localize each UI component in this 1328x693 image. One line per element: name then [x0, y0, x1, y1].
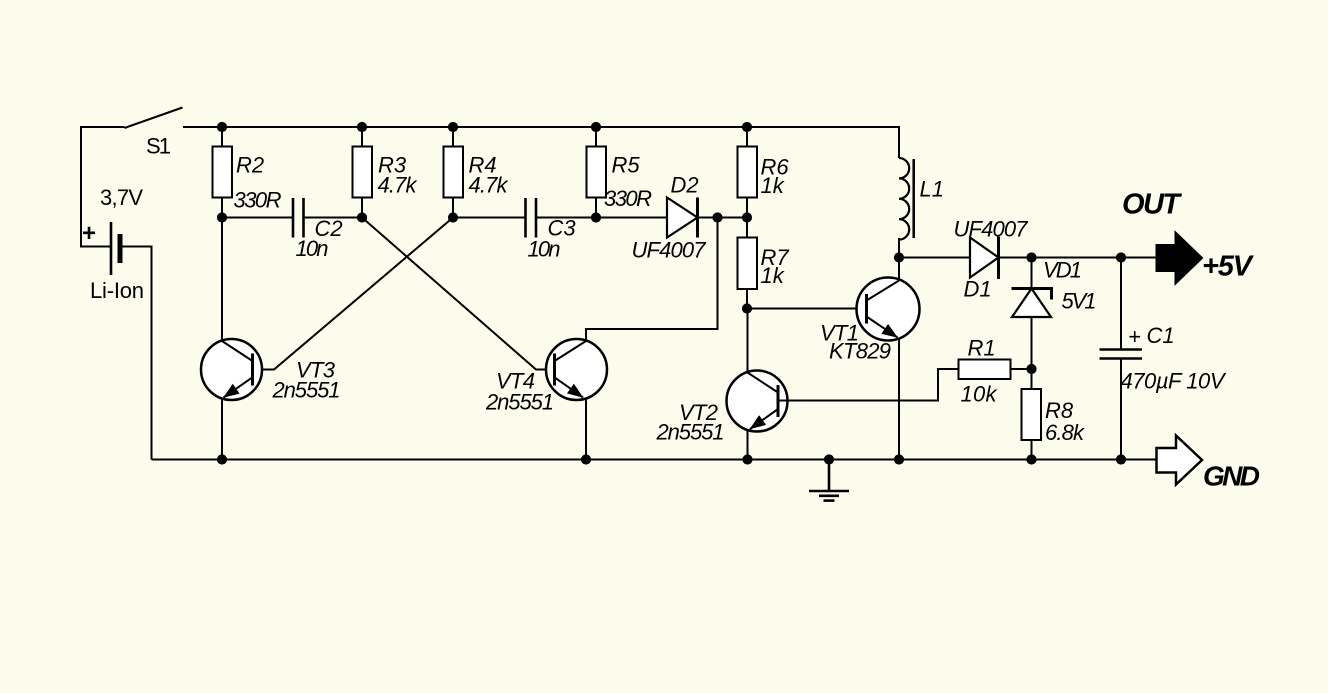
svg-text:2n5551: 2n5551	[272, 378, 341, 403]
node top rail R4	[448, 122, 458, 132]
svg-text:2n5551: 2n5551	[656, 420, 725, 445]
wire L1 node to D1 anode	[899, 257, 970, 259]
VT1 collector diagonal	[867, 281, 900, 301]
capacitor C1 plates	[1100, 350, 1143, 359]
diode D2 cathode bar	[696, 198, 699, 238]
VT2 collector wire from R7 node	[747, 309, 749, 373]
svg-text:4.7k: 4.7k	[378, 173, 418, 198]
cross-coupling wire R4 node to VT3 base	[253, 218, 454, 370]
svg-text:+: +	[1128, 324, 1141, 349]
diode D1 cathode bar	[997, 237, 1000, 280]
node top rail R3	[357, 122, 367, 132]
VT1 emitter wire to bottom rail	[898, 339, 900, 460]
resistor R4 4.7k	[444, 127, 464, 218]
node D1/VD1	[1026, 252, 1036, 262]
wire R7 bottom node to VT1 base	[747, 308, 867, 310]
node rail VT2	[742, 454, 752, 464]
ground symbol	[809, 460, 849, 501]
VT1 collector wire to L1/D1 node	[898, 258, 900, 281]
svg-text:Li-Ion: Li-Ion	[90, 278, 144, 303]
VT4 emitter diagonal with arrow	[555, 377, 584, 397]
svg-text:C1: C1	[1147, 323, 1175, 348]
svg-text:D2: D2	[671, 173, 699, 198]
VT2 emitter diagonal with arrow	[750, 409, 778, 429]
transistor VT3 2n5551 circle	[201, 339, 262, 400]
capacitor C2 10n plates	[293, 198, 304, 238]
VT2 base wire to R1	[778, 369, 959, 401]
node R3/C2	[357, 212, 367, 222]
wire D2 node down and left to VT4 collector	[586, 218, 718, 341]
node rail VT3	[217, 454, 227, 464]
VT1 emitter diagonal with arrow	[867, 317, 898, 338]
node L1/D1	[894, 252, 904, 262]
svg-text:470µF 10V: 470µF 10V	[1121, 369, 1227, 394]
wire R5 node to D2 anode	[596, 217, 667, 219]
svg-text:3,7V: 3,7V	[100, 185, 143, 210]
cross-coupling wire R3 node to VT4 base	[362, 218, 555, 370]
svg-text:10n: 10n	[296, 236, 329, 261]
wire battery negative down to bottom rail	[120, 247, 152, 460]
svg-text:UF4007: UF4007	[954, 216, 1029, 241]
diode D1 UF4007 triangle	[970, 238, 999, 278]
VT3 emitter diagonal with arrow	[224, 377, 253, 397]
VT4 base bar	[553, 354, 556, 386]
VT2 emitter wire to bottom rail	[747, 430, 749, 460]
wire battery positive to switch (left vertical + top)	[81, 127, 125, 247]
wire L1 bottom to node	[898, 238, 900, 258]
zener VD1 triangle	[1012, 289, 1051, 318]
battery 3,7V Li-Ion: long positive plate	[110, 222, 113, 275]
svg-text:S1: S1	[146, 134, 171, 159]
svg-text:GND: GND	[1203, 461, 1260, 492]
output arrow +5V (filled)	[1157, 233, 1203, 284]
svg-text:6.8k: 6.8k	[1045, 420, 1085, 445]
VT2 base bar	[777, 385, 780, 417]
node D2/VT4	[712, 212, 722, 222]
inductor L1 core bar	[912, 159, 915, 238]
wire C3 to R5 bottom node	[536, 217, 596, 219]
VT3 collector wire from R2 node	[221, 218, 223, 342]
VT3 emitter wire to bottom rail	[221, 399, 223, 460]
capacitor C1 wire from +5V rail	[1120, 258, 1122, 350]
node rail VT4	[581, 454, 591, 464]
resistor R5 330R	[587, 127, 607, 218]
svg-text:+5V: +5V	[1202, 251, 1255, 283]
svg-text:1k: 1k	[761, 263, 785, 288]
node R1/R8/VD1	[1026, 364, 1036, 374]
wire C2 to R3 bottom node	[304, 217, 363, 219]
resistor R1 10k horizontal	[938, 360, 1032, 380]
resistor R7 1k	[738, 218, 758, 309]
node rail R8	[1026, 454, 1036, 464]
node C1 top	[1116, 252, 1126, 262]
node R6/R7	[742, 212, 752, 222]
wire D2 cathode to R6/R7 node	[698, 217, 748, 219]
svg-text:R2: R2	[236, 153, 264, 178]
node R5/C3	[591, 212, 601, 222]
zener VD1 wire to R1/R8 node	[1031, 317, 1033, 369]
node R4/C3	[448, 212, 458, 222]
VT3 collector diagonal	[222, 341, 253, 361]
svg-text:10k: 10k	[961, 382, 998, 407]
node top rail R6	[742, 122, 752, 132]
svg-text:R5: R5	[612, 153, 641, 178]
svg-text:4.7k: 4.7k	[469, 173, 509, 198]
wire R2 bottom to C2	[222, 217, 293, 219]
resistor R2 330R	[213, 127, 233, 218]
resistor R8 6.8k	[1022, 369, 1042, 460]
transistor VT4 2n5551 circle	[546, 339, 607, 400]
node R7/VT1 base	[742, 303, 752, 313]
VT1 base bar	[865, 294, 868, 324]
output arrow GND (outline)	[1157, 436, 1203, 485]
VT4 collector diagonal	[555, 341, 587, 361]
svg-text:330R: 330R	[604, 186, 652, 211]
svg-text:L1: L1	[920, 177, 944, 202]
transistor VT2 2n5551 circle	[727, 371, 788, 432]
svg-text:330R: 330R	[234, 188, 282, 213]
node rail VT1	[894, 454, 904, 464]
svg-text:2n5551: 2n5551	[485, 390, 554, 415]
zener VD1 cathode bar with tail	[1012, 289, 1052, 300]
node top rail R2	[217, 122, 227, 132]
svg-text:VD1: VD1	[1043, 257, 1082, 282]
wire top rail from switch to L1 corner	[183, 127, 899, 158]
svg-text:OUT: OUT	[1122, 189, 1182, 221]
svg-text:KT829: KT829	[829, 339, 891, 364]
node R2/C2	[217, 212, 227, 222]
diode D2 UF4007 triangle	[667, 198, 698, 238]
node top rail R5	[591, 122, 601, 132]
svg-text:D1: D1	[964, 276, 992, 301]
wire D1 cathode to +5V arrow	[999, 257, 1157, 259]
capacitor C1 wire to bottom rail	[1120, 359, 1122, 460]
transistor VT1 KT829 circle	[857, 278, 920, 341]
inductor L1 coil	[899, 158, 909, 240]
svg-text:+: +	[82, 220, 96, 247]
capacitor C3 10n plates	[526, 198, 537, 238]
bottom rail GND wire	[152, 459, 1157, 461]
switch S1 blade	[125, 108, 183, 129]
wire R4 bottom to C3	[453, 217, 526, 219]
VT3 base bar	[251, 354, 254, 386]
svg-text:5V1: 5V1	[1062, 288, 1097, 313]
VT2 collector diagonal	[748, 373, 779, 393]
svg-text:10n: 10n	[528, 237, 561, 262]
VT4 emitter wire to bottom rail	[585, 399, 587, 460]
svg-text:R1: R1	[968, 336, 996, 361]
resistor R6 1k	[738, 127, 758, 218]
node rail ground	[824, 454, 834, 464]
battery short negative plate	[118, 234, 123, 263]
resistor R3 4.7k	[353, 127, 373, 218]
svg-text:UF4007: UF4007	[632, 237, 707, 262]
svg-text:1k: 1k	[761, 173, 785, 198]
node rail C1	[1116, 454, 1126, 464]
zener VD1 5V1 wire from +5V node	[1031, 258, 1033, 289]
